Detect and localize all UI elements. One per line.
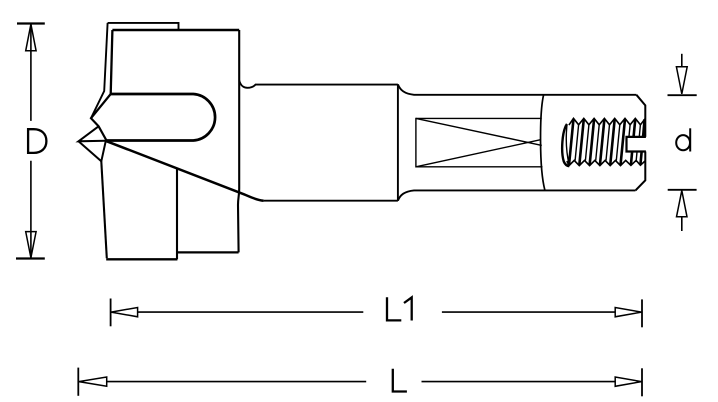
head right edge [238,30,239,252]
head outer left edge [91,23,108,118]
dimension L1 [111,299,642,328]
front wing left edge [101,161,107,258]
cutting edge diagonal [106,141,264,201]
barrel step face [397,84,399,200]
L1 line [138,311,616,313]
L left arrow [79,377,107,386]
D top arrow [26,24,36,51]
d bottom arrow [677,191,688,217]
thread root lines [575,125,640,161]
D extension line [30,24,32,259]
head rim (back edge of cylinder) [108,23,179,30]
slot [627,137,646,152]
d extension line bottom [681,217,683,231]
D top tick [17,22,45,24]
front wing right vertical [176,168,178,259]
L1 right tick [641,299,643,327]
L left tick [77,368,79,396]
d bottom tick [668,189,697,191]
flat diagonal 2 [416,140,541,167]
thread end block right edge with chamfers and slot [636,95,645,137]
head top line [112,29,239,32]
flute chevron left end [91,94,111,141]
thread relief arc [541,95,545,191]
thread run-out inner line [566,125,569,166]
wrench flat box [416,118,543,166]
bottom shoulder scoop [398,190,636,200]
head inner left edge [111,30,113,94]
dimension L [78,368,642,397]
L right arrow [615,377,641,386]
label d [676,128,690,151]
d extension line top [681,54,683,67]
label D [28,129,46,153]
d top tick [668,94,697,96]
label L [393,369,407,392]
L1 left tick [110,299,112,327]
d top arrow [676,67,687,94]
label L1 [387,297,412,320]
D bottom tick [16,257,45,259]
flute (stadium with chevron left end) [107,94,216,141]
neck top scoop [239,81,398,88]
L right tick [641,368,643,396]
L line [107,381,616,383]
D bottom arrow [26,232,36,258]
L1 right arrow [615,308,641,317]
dimension d [668,54,697,231]
back wing bottom step [177,251,239,253]
thread run-out lens [562,124,569,166]
front wing bottom [106,258,177,260]
dimension D [16,24,45,259]
thread bottom zigzag [567,160,645,165]
barrel bottom line [264,200,398,202]
top shoulder scoop [398,84,637,94]
flat diagonal 1 [416,118,542,145]
thread crest strips [569,119,645,165]
L1 left arrow [111,308,138,317]
thread top zigzag [569,118,645,125]
centre spur [79,126,106,141]
